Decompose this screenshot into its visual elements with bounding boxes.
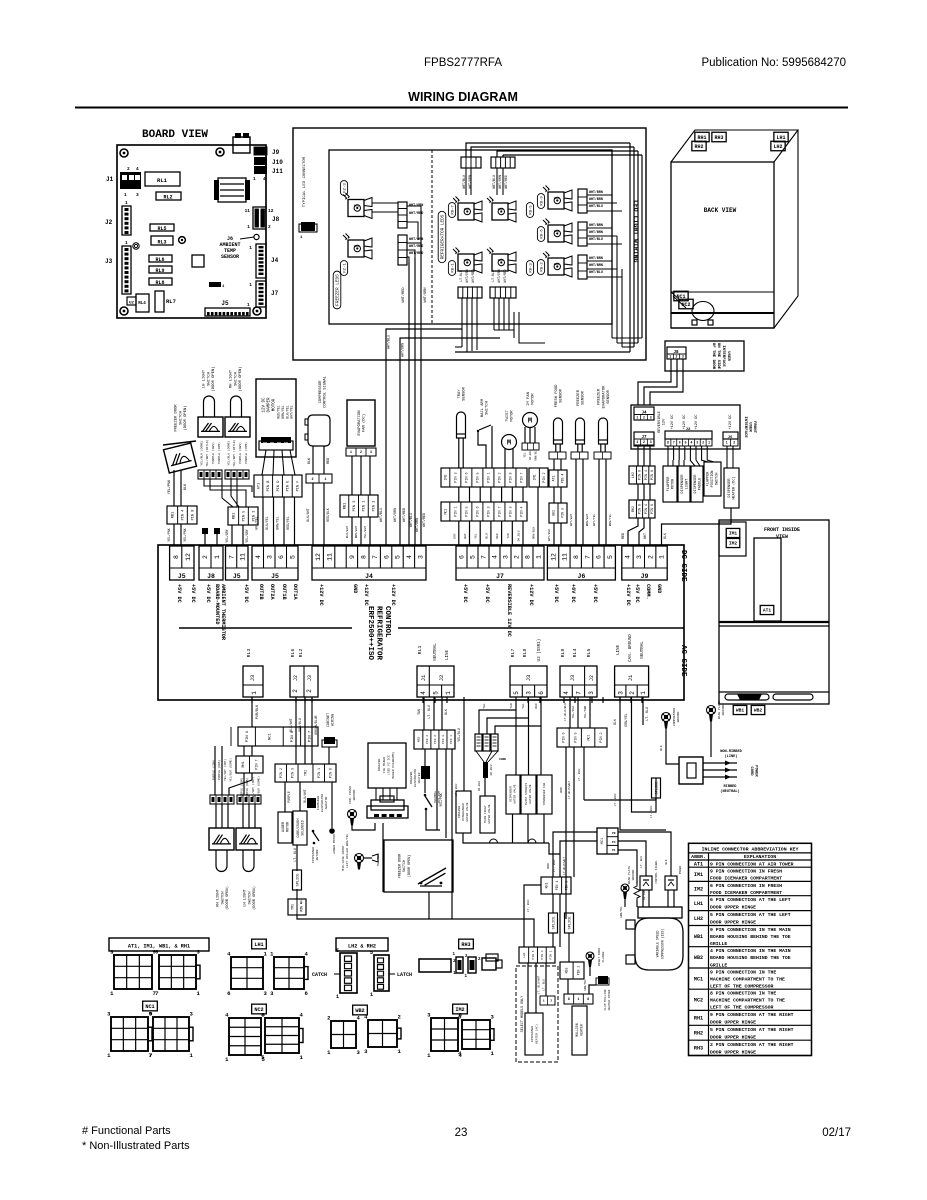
svg-text:LH2 & RH2: LH2 & RH2 <box>348 944 376 950</box>
svg-text:YEL: YEL <box>483 703 486 709</box>
svg-text:GRY/WHT: GRY/WHT <box>569 514 573 527</box>
svg-text:SWITCH: SWITCH <box>716 473 720 486</box>
svg-text:PIN 1: PIN 1 <box>318 768 322 778</box>
FZ-3 connector <box>398 202 407 228</box>
compressor side tabs <box>626 920 635 929</box>
connector RB1 evap <box>340 495 378 517</box>
RH light switch pin strip <box>210 795 234 804</box>
svg-text:INTERFACE: INTERFACE <box>721 345 725 367</box>
svg-text:RB-3: RB-3 <box>529 263 533 273</box>
svg-text:DOOR UPPER HINGE: DOOR UPPER HINGE <box>710 1049 756 1055</box>
svg-text:RL5: RL5 <box>586 649 592 658</box>
svg-text:BLU/WHT: BLU/WHT <box>303 789 307 802</box>
RB bottom wires <box>461 298 463 312</box>
svg-text:MOTOR: MOTOR <box>671 478 675 489</box>
svg-text:1: 1 <box>125 200 128 206</box>
back view front face <box>671 162 774 328</box>
svg-text:RB-1: RB-1 <box>451 263 455 273</box>
label RB-7 <box>448 203 455 218</box>
svg-text:EVAPORATOR: EVAPORATOR <box>602 385 606 409</box>
svg-text:# Functional Parts: # Functional Parts <box>82 1125 171 1137</box>
svg-text:+12V DC: +12V DC <box>528 584 534 606</box>
svg-text:DOOR UPPER HINGE: DOOR UPPER HINGE <box>710 1019 756 1025</box>
freezer strip <box>571 452 588 459</box>
ground wire to cord <box>666 728 679 764</box>
front inside small box <box>719 522 746 556</box>
mullion heater strip <box>564 994 593 1004</box>
mid-case roller ground <box>355 854 364 863</box>
svg-text:MC1: MC1 <box>694 976 703 982</box>
label NC1 on back view <box>674 291 688 301</box>
damper motor connector <box>261 437 291 443</box>
svg-text:BAIL ARM: BAIL ARM <box>481 398 485 417</box>
label NC2 group <box>252 1004 267 1014</box>
label RH1 on back view <box>695 132 709 142</box>
svg-text:J3: J3 <box>569 675 576 682</box>
svg-text:TYPICAL LED CONNECTOR: TYPICAL LED CONNECTOR <box>303 156 307 207</box>
svg-text:FZ-3: FZ-3 <box>343 183 347 193</box>
svg-text:WHT/ORN: WHT/ORN <box>465 269 469 282</box>
connector MC2 strip <box>441 502 527 521</box>
svg-text:1: 1 <box>708 441 710 445</box>
svg-text:1: 1 <box>636 440 638 444</box>
svg-text:PIN 6: PIN 6 <box>562 732 566 742</box>
label LH1 group <box>252 939 267 949</box>
condenser fan box <box>537 775 552 814</box>
control signal relay 2 <box>665 876 677 890</box>
svg-text:GRILLE: GRILLE <box>710 962 727 968</box>
bottom cell wire stubs <box>251 697 253 703</box>
RB-6 connector <box>578 222 587 246</box>
svg-text:PIN 7: PIN 7 <box>521 472 525 482</box>
DC/AC divider <box>179 627 352 629</box>
svg-text:5: 5 <box>470 555 477 559</box>
svg-text:PIN 6: PIN 6 <box>651 470 655 480</box>
svg-text:LED: LED <box>498 259 504 262</box>
svg-text:SOLENOID: SOLENOID <box>300 820 304 835</box>
NC1 connector female <box>153 1017 189 1051</box>
svg-text:AT1: AT1 <box>763 608 772 614</box>
svg-text:1: 1 <box>249 282 252 288</box>
svg-text:WHT/ORN: WHT/ORN <box>497 269 501 282</box>
svg-text:WHT/YEL: WHT/YEL <box>290 405 294 418</box>
RB-5 module <box>492 203 508 220</box>
svg-text:6: 6 <box>383 555 390 559</box>
svg-text:2 PIN CONNECTION AT THE RIGHT: 2 PIN CONNECTION AT THE RIGHT <box>710 1042 794 1048</box>
svg-text:MULLION: MULLION <box>575 1023 579 1036</box>
svg-text:1: 1 <box>253 176 256 182</box>
svg-text:DK.BLU: DK.BLU <box>490 764 493 775</box>
svg-text:RB1: RB1 <box>172 512 176 518</box>
ice maker connector <box>375 788 377 800</box>
inline connector abbreviation key table <box>689 843 812 1055</box>
svg-text:1: 1 <box>247 224 250 230</box>
wires LH2 to RH2 <box>637 484 639 500</box>
splice right <box>652 778 661 798</box>
svg-text:PIN 2: PIN 2 <box>543 472 547 482</box>
svg-text:OF THE DOOR: OF THE DOOR <box>711 343 715 370</box>
wires into MC1 vertical <box>565 919 567 940</box>
svg-text:7: 7 <box>155 990 158 997</box>
svg-text:7: 7 <box>228 555 235 559</box>
svg-text:1: 1 <box>636 415 638 419</box>
svg-text:IM2: IM2 <box>694 886 703 892</box>
main inlet valve <box>480 796 495 833</box>
svg-text:9 PIN CONNECTION AT AIR TOWER: 9 PIN CONNECTION AT AIR TOWER <box>710 861 794 867</box>
connector IM1 strip <box>529 468 548 487</box>
compressor rail <box>671 312 774 314</box>
svg-text:2: 2 <box>643 440 645 444</box>
svg-text:7: 7 <box>149 1052 152 1059</box>
connector J4 pins 12-3 <box>312 546 426 580</box>
NC1 strip extra dividers <box>230 727 232 746</box>
LH light switch pin strip <box>198 470 222 479</box>
LED bottom bus <box>455 351 630 353</box>
svg-text:YEL/GRY (INTLK): YEL/GRY (INTLK) <box>205 439 209 466</box>
svg-text:FREEZER: FREEZER <box>577 389 581 406</box>
svg-text:ORN/YEL: ORN/YEL <box>624 713 628 726</box>
svg-text:PIN 1: PIN 1 <box>555 881 559 891</box>
compressor ground <box>662 713 671 722</box>
front UI connector J4 <box>634 407 654 420</box>
svg-text:5: 5 <box>607 555 614 559</box>
svg-text:PIN 4: PIN 4 <box>645 470 649 480</box>
RB-7 module <box>458 203 474 220</box>
svg-text:RL4: RL4 <box>572 649 578 658</box>
svg-text:LT.BLU: LT.BLU <box>491 270 495 282</box>
power cord block <box>679 757 703 784</box>
svg-text:SWITCH: SWITCH <box>234 372 238 386</box>
svg-text:PADDLE: PADDLE <box>698 478 702 491</box>
svg-text:8 PIN CONNECTION IN THE: 8 PIN CONNECTION IN THE <box>710 991 776 997</box>
svg-text:6 PIN CONNECTION IN FRESH: 6 PIN CONNECTION IN FRESH <box>710 883 782 889</box>
svg-text:9 PIN CONNECTION AT THE RIGHT: 9 PIN CONNECTION AT THE RIGHT <box>710 1012 794 1018</box>
svg-text:5 PIN CONNECTION AT THE LEFT: 5 PIN CONNECTION AT THE LEFT <box>710 912 791 918</box>
svg-text:+12V DC: +12V DC <box>363 584 369 606</box>
svg-text:TM1: TM1 <box>291 904 295 910</box>
svg-text:RL6: RL6 <box>290 649 296 658</box>
freezer evap sensor <box>599 418 608 444</box>
svg-text:6: 6 <box>459 555 466 559</box>
LED right stubs <box>611 195 613 338</box>
svg-text:YEL/GRY (INTLK): YEL/GRY (INTLK) <box>232 439 236 466</box>
UI wires to front UI <box>638 359 671 405</box>
svg-text:6: 6 <box>278 555 285 559</box>
right door flange ground <box>586 952 594 960</box>
svg-text:TAN: TAN <box>510 703 513 709</box>
svg-text:LT. BLU: LT. BLU <box>542 979 545 991</box>
relay RL3 <box>151 236 173 245</box>
svg-text:6: 6 <box>679 441 681 445</box>
svg-text:WB2: WB2 <box>694 955 703 961</box>
svg-text:COMPRESSOR (IES): COMPRESSOR (IES) <box>661 929 665 960</box>
svg-text:LH1: LH1 <box>694 901 703 907</box>
toe grille slot left <box>725 694 769 700</box>
svg-text:8: 8 <box>587 997 589 1001</box>
svg-text:GROUND: GROUND <box>353 789 356 800</box>
base plate ground 1 <box>707 706 716 715</box>
svg-text:AT1, IM1, WB1, & RH1: AT1, IM1, WB1, & RH1 <box>128 944 190 950</box>
svg-text:SENSOR: SENSOR <box>560 388 564 402</box>
svg-text:YEL/PNK: YEL/PNK <box>167 479 172 494</box>
svg-text:ON THE SIDE: ON THE SIDE <box>716 343 720 370</box>
svg-text:MC1: MC1 <box>587 734 591 740</box>
svg-text:RH1: RH1 <box>697 135 706 141</box>
svg-text:1: 1 <box>659 555 666 559</box>
svg-text:1: 1 <box>249 245 252 251</box>
svg-text:WHT/BLU: WHT/BLU <box>492 175 496 189</box>
svg-text:P1: P1 <box>612 849 616 852</box>
svg-text:(NEUTRAL): (NEUTRAL) <box>720 789 739 794</box>
svg-text:LINE: LINE <box>617 644 621 655</box>
mounting hole bottom-left <box>120 307 128 315</box>
svg-text:SPLICE: SPLICE <box>656 782 660 795</box>
svg-text:BRN/WHT: BRN/WHT <box>585 514 589 527</box>
svg-text:PURPLE: PURPLE <box>287 791 291 803</box>
main control board outline <box>117 145 266 318</box>
svg-text:PIN 7: PIN 7 <box>499 506 503 516</box>
label RB-1 <box>448 261 455 276</box>
connector J3-5-3-6 <box>510 666 547 697</box>
svg-text:DISPENSER: DISPENSER <box>312 847 315 863</box>
back view right face <box>774 130 798 328</box>
freezer sensor wires <box>575 459 577 545</box>
AT1 group connector male <box>114 955 152 989</box>
svg-text:WHT: WHT <box>464 533 467 539</box>
svg-text:+12V DC: +12V DC <box>695 414 699 429</box>
svg-text:RL8: RL8 <box>155 280 164 286</box>
svg-text:CUBE/CRUSH: CUBE/CRUSH <box>296 818 300 837</box>
valve feed wires <box>515 697 517 775</box>
IM fan strip <box>522 443 539 450</box>
svg-text:PIN 3: PIN 3 <box>291 768 295 778</box>
svg-text:3: 3 <box>636 555 643 559</box>
svg-text:PIN 3: PIN 3 <box>353 501 357 512</box>
svg-text:LEFT OF THE COMPRESSOR: LEFT OF THE COMPRESSOR <box>710 1005 773 1011</box>
svg-text:LH2: LH2 <box>773 144 782 150</box>
label RH3 group <box>459 939 474 949</box>
svg-text:FLANGE: FLANGE <box>602 951 605 962</box>
svg-text:DISPENSER: DISPENSER <box>509 786 512 802</box>
svg-text:SWITCH: SWITCH <box>486 401 490 415</box>
svg-text:4 PIN CONNECTION IN THE MAIN: 4 PIN CONNECTION IN THE MAIN <box>710 948 791 954</box>
svg-text:PIN 6: PIN 6 <box>466 472 470 482</box>
svg-text:RH2: RH2 <box>694 144 703 150</box>
front UI connector J6 <box>723 432 738 439</box>
svg-text:+5V DC: +5V DC <box>243 584 249 603</box>
label RB-9 <box>537 194 544 209</box>
svg-text:FRESH FOOD: FRESH FOOD <box>555 384 559 408</box>
svg-text:1: 1 <box>669 355 671 359</box>
svg-text:YEL/GRY: YEL/GRY <box>245 529 249 542</box>
svg-text:7: 7 <box>372 555 379 559</box>
svg-text:RED: RED <box>535 703 538 709</box>
svg-text:NR2: NR2 <box>417 737 420 743</box>
svg-text:P4: P4 <box>612 841 616 844</box>
svg-text:WHT/YEL: WHT/YEL <box>254 516 258 529</box>
auger motor box <box>278 812 292 843</box>
relay RL1 <box>145 172 180 186</box>
label AT1 <box>760 605 774 614</box>
label WB1 <box>733 705 747 714</box>
toe grille blob <box>737 694 762 700</box>
svg-text:WATER VALVE: WATER VALVE <box>514 784 517 803</box>
ice maker ground wire <box>352 823 375 830</box>
svg-text:5: 5 <box>513 691 520 695</box>
svg-text:WATER VALVE: WATER VALVE <box>466 802 469 821</box>
svg-text:GRILLE: GRILLE <box>710 941 727 947</box>
svg-text:J5: J5 <box>233 573 241 580</box>
svg-text:PIN 6: PIN 6 <box>477 506 481 516</box>
svg-text:CONTROL: CONTROL <box>383 606 391 638</box>
variable speed compressor body <box>635 918 683 970</box>
compressor top plate <box>638 907 682 918</box>
svg-text:PIN 1: PIN 1 <box>488 472 492 482</box>
svg-text:YEL/BLU: YEL/BLU <box>376 854 380 867</box>
svg-text:SPLICE: SPLICE <box>569 917 573 930</box>
svg-text:WHT/RED: WHT/RED <box>504 175 508 189</box>
svg-text:LINE: LINE <box>446 649 450 660</box>
svg-text:4: 4 <box>255 555 262 559</box>
connector MC1 strip <box>557 728 607 747</box>
svg-text:MOTOR: MOTOR <box>511 410 515 422</box>
svg-text:RED/YEL: RED/YEL <box>286 516 290 529</box>
svg-text:1: 1 <box>370 992 373 998</box>
svg-text:RED: RED <box>327 458 331 464</box>
svg-text:MC2: MC2 <box>445 508 449 514</box>
svg-text:OUT2B: OUT2B <box>258 584 264 600</box>
freezer door switch <box>164 443 197 473</box>
LH1 wires down <box>527 963 529 1013</box>
valve bottom wires <box>463 814 544 848</box>
connector J3 <box>122 246 131 294</box>
svg-text:DISPENSER: DISPENSER <box>694 474 698 494</box>
svg-text:RH LIGHT: RH LIGHT <box>230 369 234 388</box>
svg-text:1: 1 <box>350 450 352 454</box>
svg-text:FZ-1: FZ-1 <box>343 263 347 273</box>
svg-text:DOOR UPPER HINGE: DOOR UPPER HINGE <box>710 905 756 911</box>
svg-text:USER: USER <box>726 351 730 361</box>
svg-text:TWIST SOCKETS: TWIST SOCKETS <box>525 782 528 805</box>
svg-text:(DOOR OPEN): (DOOR OPEN) <box>183 405 188 430</box>
svg-text:LED: LED <box>554 197 560 200</box>
svg-text:J2: J2 <box>293 675 299 681</box>
mounting hole top-left <box>120 149 128 157</box>
svg-text:YEL/BLK (DOME): YEL/BLK (DOME) <box>228 758 232 782</box>
svg-text:BLK: BLK <box>660 745 663 751</box>
svg-text:2: 2 <box>550 1000 552 1003</box>
svg-text:5: 5 <box>685 441 687 445</box>
svg-text:CONDENSER FAN: CONDENSER FAN <box>543 782 546 805</box>
svg-text:BLK/YEL: BLK/YEL <box>285 405 289 418</box>
svg-text:PIN 3: PIN 3 <box>561 508 565 518</box>
svg-text:3: 3 <box>696 441 698 445</box>
svg-text:DISPENSER: DISPENSER <box>728 478 732 498</box>
TM1 PIN4 box <box>296 889 298 899</box>
svg-text:J1: J1 <box>627 674 634 681</box>
NC1 connector male <box>111 1017 148 1051</box>
svg-text:LED: LED <box>464 259 470 262</box>
svg-text:WB1: WB1 <box>736 708 745 714</box>
RB-6 module <box>548 225 564 242</box>
svg-text:1: 1 <box>578 997 580 1001</box>
svg-text:LT. BLU: LT. BLU <box>645 707 649 720</box>
RH3 pin male <box>456 957 463 973</box>
label RH3 on back view <box>712 132 726 142</box>
svg-text:J1: J1 <box>106 176 114 183</box>
wires J1 J2 to NR2 <box>423 697 425 730</box>
svg-text:GND: GND <box>656 584 662 593</box>
svg-text:RB1: RB1 <box>344 503 348 509</box>
svg-text:3: 3 <box>618 691 625 695</box>
svg-text:YEL: YEL <box>475 533 478 539</box>
dispenser heater AC box <box>525 1013 543 1055</box>
switch crossover wires <box>204 479 252 492</box>
svg-text:BLK: BLK <box>308 457 312 464</box>
connector IM2 strip <box>441 468 527 487</box>
svg-text:PIN 4: PIN 4 <box>182 510 186 521</box>
RB1 evap wires down <box>351 517 353 545</box>
svg-text:WHT/ORN: WHT/ORN <box>423 287 428 302</box>
svg-text:YEL/PNK: YEL/PNK <box>183 528 187 541</box>
buzzer component top <box>233 137 250 153</box>
svg-text:4: 4 <box>420 691 427 695</box>
compressor control wires 2 <box>312 483 314 545</box>
toe grille slot right <box>773 694 813 700</box>
svg-text:YEL/BLK (DOME): YEL/BLK (DOME) <box>199 440 203 465</box>
svg-text:5: 5 <box>395 555 402 559</box>
svg-text:2: 2 <box>127 166 130 172</box>
RB-2 module <box>548 258 564 275</box>
WB2 connector female <box>368 1020 397 1047</box>
connector J1-3-2-1 <box>615 666 649 697</box>
svg-text:ICEMAKER: ICEMAKER <box>317 796 320 811</box>
svg-text:CATCH: CATCH <box>312 972 327 978</box>
svg-text:VARIABLE SPEED: VARIABLE SPEED <box>656 931 660 958</box>
label LH2 on back view <box>771 141 785 151</box>
svg-text:RH3: RH3 <box>461 942 470 948</box>
connector J8 pins 2,1 <box>199 546 223 580</box>
svg-text:FREEZER DOOR: FREEZER DOOR <box>175 404 179 432</box>
svg-text:3: 3 <box>650 415 652 419</box>
svg-text:2: 2 <box>733 441 735 445</box>
svg-text:HEATER COVER: HEATER COVER <box>608 989 611 1010</box>
svg-text:CAN. GROUND: CAN. GROUND <box>629 634 633 662</box>
LH light switch body <box>198 417 223 437</box>
small connector H1 <box>209 282 221 287</box>
svg-text:AC SIDE: AC SIDE <box>679 645 687 677</box>
svg-text:MACHINE COMPARTMENT TO THE: MACHINE COMPARTMENT TO THE <box>710 976 785 982</box>
svg-text:GRN/YEL: GRN/YEL <box>619 906 623 918</box>
svg-text:11: 11 <box>245 208 251 214</box>
svg-text:5: 5 <box>433 691 440 695</box>
svg-text:LT. BLU: LT. BLU <box>293 848 297 861</box>
svg-text:LT.BLU/WHT: LT.BLU/WHT <box>567 781 571 799</box>
svg-text:RH3: RH3 <box>694 1046 703 1052</box>
svg-text:11: 11 <box>240 553 247 561</box>
svg-text:WHT/ORN: WHT/ORN <box>498 175 502 189</box>
svg-text:J5: J5 <box>221 300 229 307</box>
svg-text:LT. BLU: LT. BLU <box>650 806 653 819</box>
svg-text:WB1: WB1 <box>694 934 703 940</box>
svg-text:+5V DC: +5V DC <box>592 584 598 603</box>
connector NR2 strip <box>414 730 455 749</box>
svg-text:LED: LED <box>354 245 360 248</box>
relay RL9 <box>149 266 172 273</box>
svg-text:6: 6 <box>596 555 603 559</box>
svg-text:PIN 2: PIN 2 <box>280 768 284 778</box>
label REFRIGERATOR LEDS <box>438 211 446 262</box>
